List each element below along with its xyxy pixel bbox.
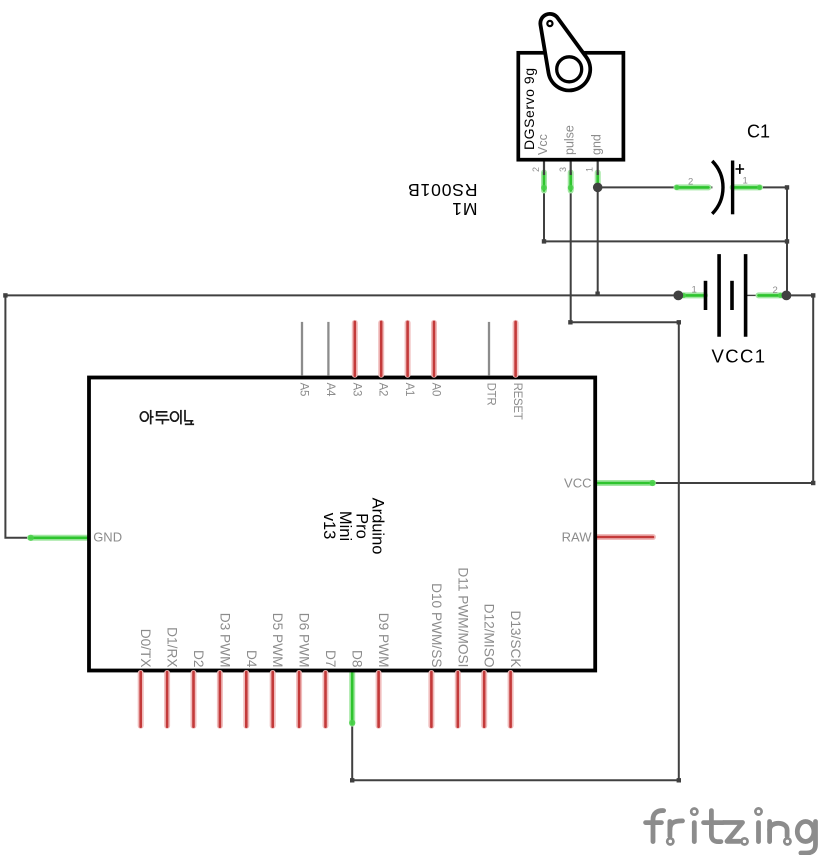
Arduino top pin legs xyxy=(302,322,489,376)
wire: GND rail horizontal xyxy=(5,294,678,296)
svg-text:M1: M1 xyxy=(451,199,477,219)
svg-text:DGServo 9g: DGServo 9g xyxy=(521,67,537,150)
servo M1 body xyxy=(518,53,623,160)
svg-text:D7: D7 xyxy=(323,650,338,668)
green wire end: servo pulse pin 3 xyxy=(568,173,574,191)
capacitor C1 curved plate xyxy=(712,161,723,214)
wire: servo gnd down to GND rail xyxy=(597,187,599,295)
svg-text:2: 2 xyxy=(531,167,541,172)
svg-text:A1: A1 xyxy=(403,383,415,396)
svg-text:2: 2 xyxy=(688,176,693,187)
servo horn tip hole xyxy=(547,21,552,26)
green wire end: Arduino GND xyxy=(30,535,89,541)
Arduino Korean label 아두이노 xyxy=(140,410,194,425)
svg-text:D13/SCK: D13/SCK xyxy=(508,610,523,667)
svg-text:GND: GND xyxy=(93,530,122,545)
svg-text:D9 PWM: D9 PWM xyxy=(376,613,391,668)
wire: servo gnd to capacitor pin 2 xyxy=(598,186,713,188)
svg-text:D3 PWM: D3 PWM xyxy=(217,613,232,668)
servo pin legs xyxy=(544,162,598,176)
junction dot: GND rail / battery pin1 xyxy=(673,291,683,301)
svg-text:A0: A0 xyxy=(430,383,442,396)
svg-text:A2: A2 xyxy=(377,383,389,396)
green wire end: battery pin 2 xyxy=(759,292,782,298)
svg-text:RS001B: RS001B xyxy=(407,180,477,200)
capacitor plus sign xyxy=(736,164,745,174)
svg-text:C1: C1 xyxy=(747,122,770,142)
svg-text:1: 1 xyxy=(743,175,748,186)
green wire end: battery pin 1 xyxy=(683,292,705,298)
battery VCC1 long plate right xyxy=(744,254,748,337)
svg-text:2: 2 xyxy=(773,285,778,296)
wire: capacitor pin 1 to +V vertical xyxy=(733,187,787,295)
svg-text:D0/TX: D0/TX xyxy=(138,629,153,668)
servo horn hub hole xyxy=(557,57,582,82)
fritzing logo xyxy=(646,811,816,853)
green wire end: Arduino VCC xyxy=(596,480,653,486)
battery VCC1 short plate left xyxy=(704,281,708,310)
svg-text:A5: A5 xyxy=(298,383,310,396)
svg-text:RESET: RESET xyxy=(511,383,523,420)
svg-text:3: 3 xyxy=(558,167,568,172)
wire: battery pin 2 leg xyxy=(746,294,760,296)
wire: servo Vcc to +V rail xyxy=(544,174,787,241)
svg-text:A3: A3 xyxy=(350,383,362,396)
battery VCC1 short plate right xyxy=(730,281,734,310)
svg-text:pulse: pulse xyxy=(563,125,577,155)
svg-text:VCC: VCC xyxy=(564,475,591,490)
capacitor C1 straight plate xyxy=(731,161,734,215)
svg-text:D2: D2 xyxy=(191,650,206,668)
green pin leg: Arduino D8 xyxy=(349,672,355,724)
svg-text:RAW: RAW xyxy=(562,529,593,544)
svg-text:Vcc: Vcc xyxy=(536,134,550,155)
Arduino top pin labels xyxy=(298,383,524,420)
wire: battery + to Arduino VCC xyxy=(653,295,813,483)
green wire end: capacitor pin 2 xyxy=(677,184,709,190)
svg-text:D8: D8 xyxy=(350,650,365,668)
red wire: Arduino RAW unconnected xyxy=(596,534,653,540)
svg-text:D6 PWM: D6 PWM xyxy=(297,613,312,668)
Arduino Pro Mini body xyxy=(89,378,595,671)
svg-text:VCC1: VCC1 xyxy=(712,346,767,367)
svg-text:D12/MISO: D12/MISO xyxy=(482,604,497,668)
servo horn outline xyxy=(540,14,590,91)
svg-text:D5 PWM: D5 PWM xyxy=(270,613,285,668)
svg-text:1: 1 xyxy=(585,167,595,172)
wire: servo pulse to D8 xyxy=(352,174,679,780)
svg-text:D11 PWM/MOSI: D11 PWM/MOSI xyxy=(455,567,470,667)
green wire end: servo gnd pin 1 xyxy=(595,173,601,185)
svg-text:D1/RX: D1/RX xyxy=(165,627,180,667)
svg-text:D4: D4 xyxy=(244,650,259,668)
wire: GND rail left vertical to Arduino GND xyxy=(5,295,88,537)
green wire endpoint markers xyxy=(28,185,783,726)
svg-text:A4: A4 xyxy=(324,383,336,397)
svg-text:gnd: gnd xyxy=(590,134,604,155)
junction dot: battery pin2 / +V xyxy=(782,291,792,301)
wire: battery pin 1 leg xyxy=(678,294,705,296)
junction dot: servo gnd / C1 node xyxy=(593,183,603,193)
svg-text:1: 1 xyxy=(692,285,697,296)
battery VCC1 long plate left xyxy=(717,254,721,337)
green wire end: servo Vcc pin 2 xyxy=(541,173,547,191)
Arduino bottom pin legs xyxy=(141,672,511,727)
svg-text:DTR: DTR xyxy=(485,383,497,406)
green wire end: capacitor pin 1 xyxy=(733,184,760,190)
Arduino bottom pin labels xyxy=(138,567,523,668)
svg-text:D10 PWM/SS: D10 PWM/SS xyxy=(429,583,444,667)
